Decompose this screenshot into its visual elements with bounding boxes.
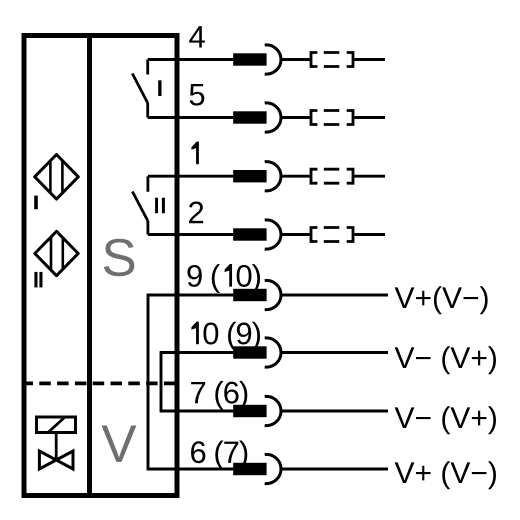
sensor I stripes: [50, 161, 62, 193]
wire terminal 2: [148, 233, 233, 236]
wire terminal 10: [160, 351, 234, 354]
plug connector terminal 5: [311, 111, 353, 125]
dashed separation S/V sections: [22, 381, 180, 385]
switch I contact: [132, 60, 147, 118]
ferrule terminal 9: [233, 289, 266, 301]
terminal 9 polarity label: [395, 286, 488, 314]
socket arc terminal 4: [265, 45, 281, 74]
socket arc terminal 6: [265, 454, 281, 483]
terminal 10 label: [191, 322, 260, 351]
wire terminal 10 lead: [281, 351, 388, 354]
wire terminal 2 to plug: [281, 233, 309, 236]
terminal 6 polarity label: [395, 461, 496, 489]
wire terminal 6: [147, 468, 234, 471]
socket arc terminal 10: [265, 338, 281, 367]
terminal 6 label: [191, 440, 247, 469]
wire after plug terminal 4: [354, 58, 385, 61]
plug connector terminal 4: [311, 53, 353, 67]
ferrule terminal 2: [233, 228, 266, 240]
internal bridge wire terminals 9-6: [147, 295, 150, 469]
section label V: [102, 425, 137, 461]
ferrule terminal 7: [233, 405, 266, 417]
valve stem: [55, 434, 58, 460]
ferrule terminal 5: [233, 111, 266, 123]
valve body left triangle: [39, 451, 56, 469]
sensor I label: [34, 196, 38, 210]
wire terminal 1: [148, 175, 233, 178]
socket arc terminal 2: [265, 220, 281, 249]
switch II label: [155, 198, 158, 214]
wire after plug terminal 1: [354, 175, 385, 178]
sensor II stripes: [51, 237, 63, 270]
terminal 7 label: [191, 381, 247, 410]
switch II contact: [132, 176, 148, 234]
ferrule terminal 4: [233, 53, 266, 65]
sensor I diamond: [35, 155, 79, 200]
ferrule terminal 10: [233, 346, 266, 358]
wire terminal 7 lead: [281, 410, 388, 413]
housing internal divider: [87, 33, 92, 498]
wire terminal 5: [148, 116, 234, 119]
socket arc terminal 7: [265, 396, 281, 425]
terminal 9 label: [187, 264, 260, 293]
ferrule terminal 1: [233, 170, 266, 182]
terminal 2 label: [189, 202, 203, 224]
wire after plug terminal 5: [354, 116, 385, 119]
terminal 10 polarity label: [395, 346, 496, 374]
wire terminal 4 to plug: [281, 58, 309, 61]
wire terminal 4: [148, 58, 234, 61]
sensor II diamond: [35, 231, 78, 275]
terminal 5 label: [190, 84, 205, 106]
internal bridge wire terminals 10-7: [160, 353, 163, 412]
switch I label: [158, 80, 161, 96]
wire terminal 5 to plug: [281, 116, 309, 119]
solenoid coil: [37, 417, 76, 433]
device housing outer box: [24, 36, 177, 496]
terminal 7 polarity label: [395, 406, 496, 434]
terminal 1 label: [191, 142, 198, 165]
plug connector terminal 2: [311, 228, 353, 242]
terminal 4 label: [189, 26, 205, 47]
wire terminal 1 to plug: [281, 175, 309, 178]
ferrule terminal 6: [233, 463, 266, 475]
plug connector terminal 1: [311, 169, 353, 183]
solenoid diagonal: [48, 417, 65, 433]
wire terminal 9: [147, 294, 234, 297]
wire terminal 9 lead: [281, 294, 388, 297]
valve body right triangle: [56, 451, 73, 469]
wire terminal 7: [160, 410, 234, 413]
sensor II label: [34, 272, 37, 288]
socket arc terminal 9: [265, 280, 281, 309]
wire terminal 6 lead: [281, 468, 388, 471]
section label S: [104, 239, 135, 277]
wire after plug terminal 2: [354, 233, 385, 236]
socket arc terminal 5: [265, 103, 281, 132]
socket arc terminal 1: [265, 162, 281, 191]
